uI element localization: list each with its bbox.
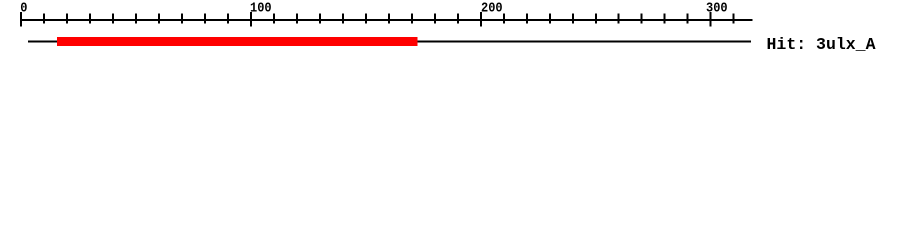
ruler minor ticks every 10 units: [43, 14, 735, 24]
svg-text:200: 200: [481, 1, 503, 17]
svg-text:Hit: 3ulx_A: Hit: 3ulx_A: [767, 35, 876, 54]
ruler major ticks at 0,100,200,300: [20, 12, 712, 27]
svg-text:300: 300: [706, 1, 728, 17]
ruler axis line: [21, 19, 753, 21]
svg-text:100: 100: [250, 1, 272, 17]
aligned segment red bar: [57, 37, 418, 46]
hit line: [28, 41, 751, 43]
